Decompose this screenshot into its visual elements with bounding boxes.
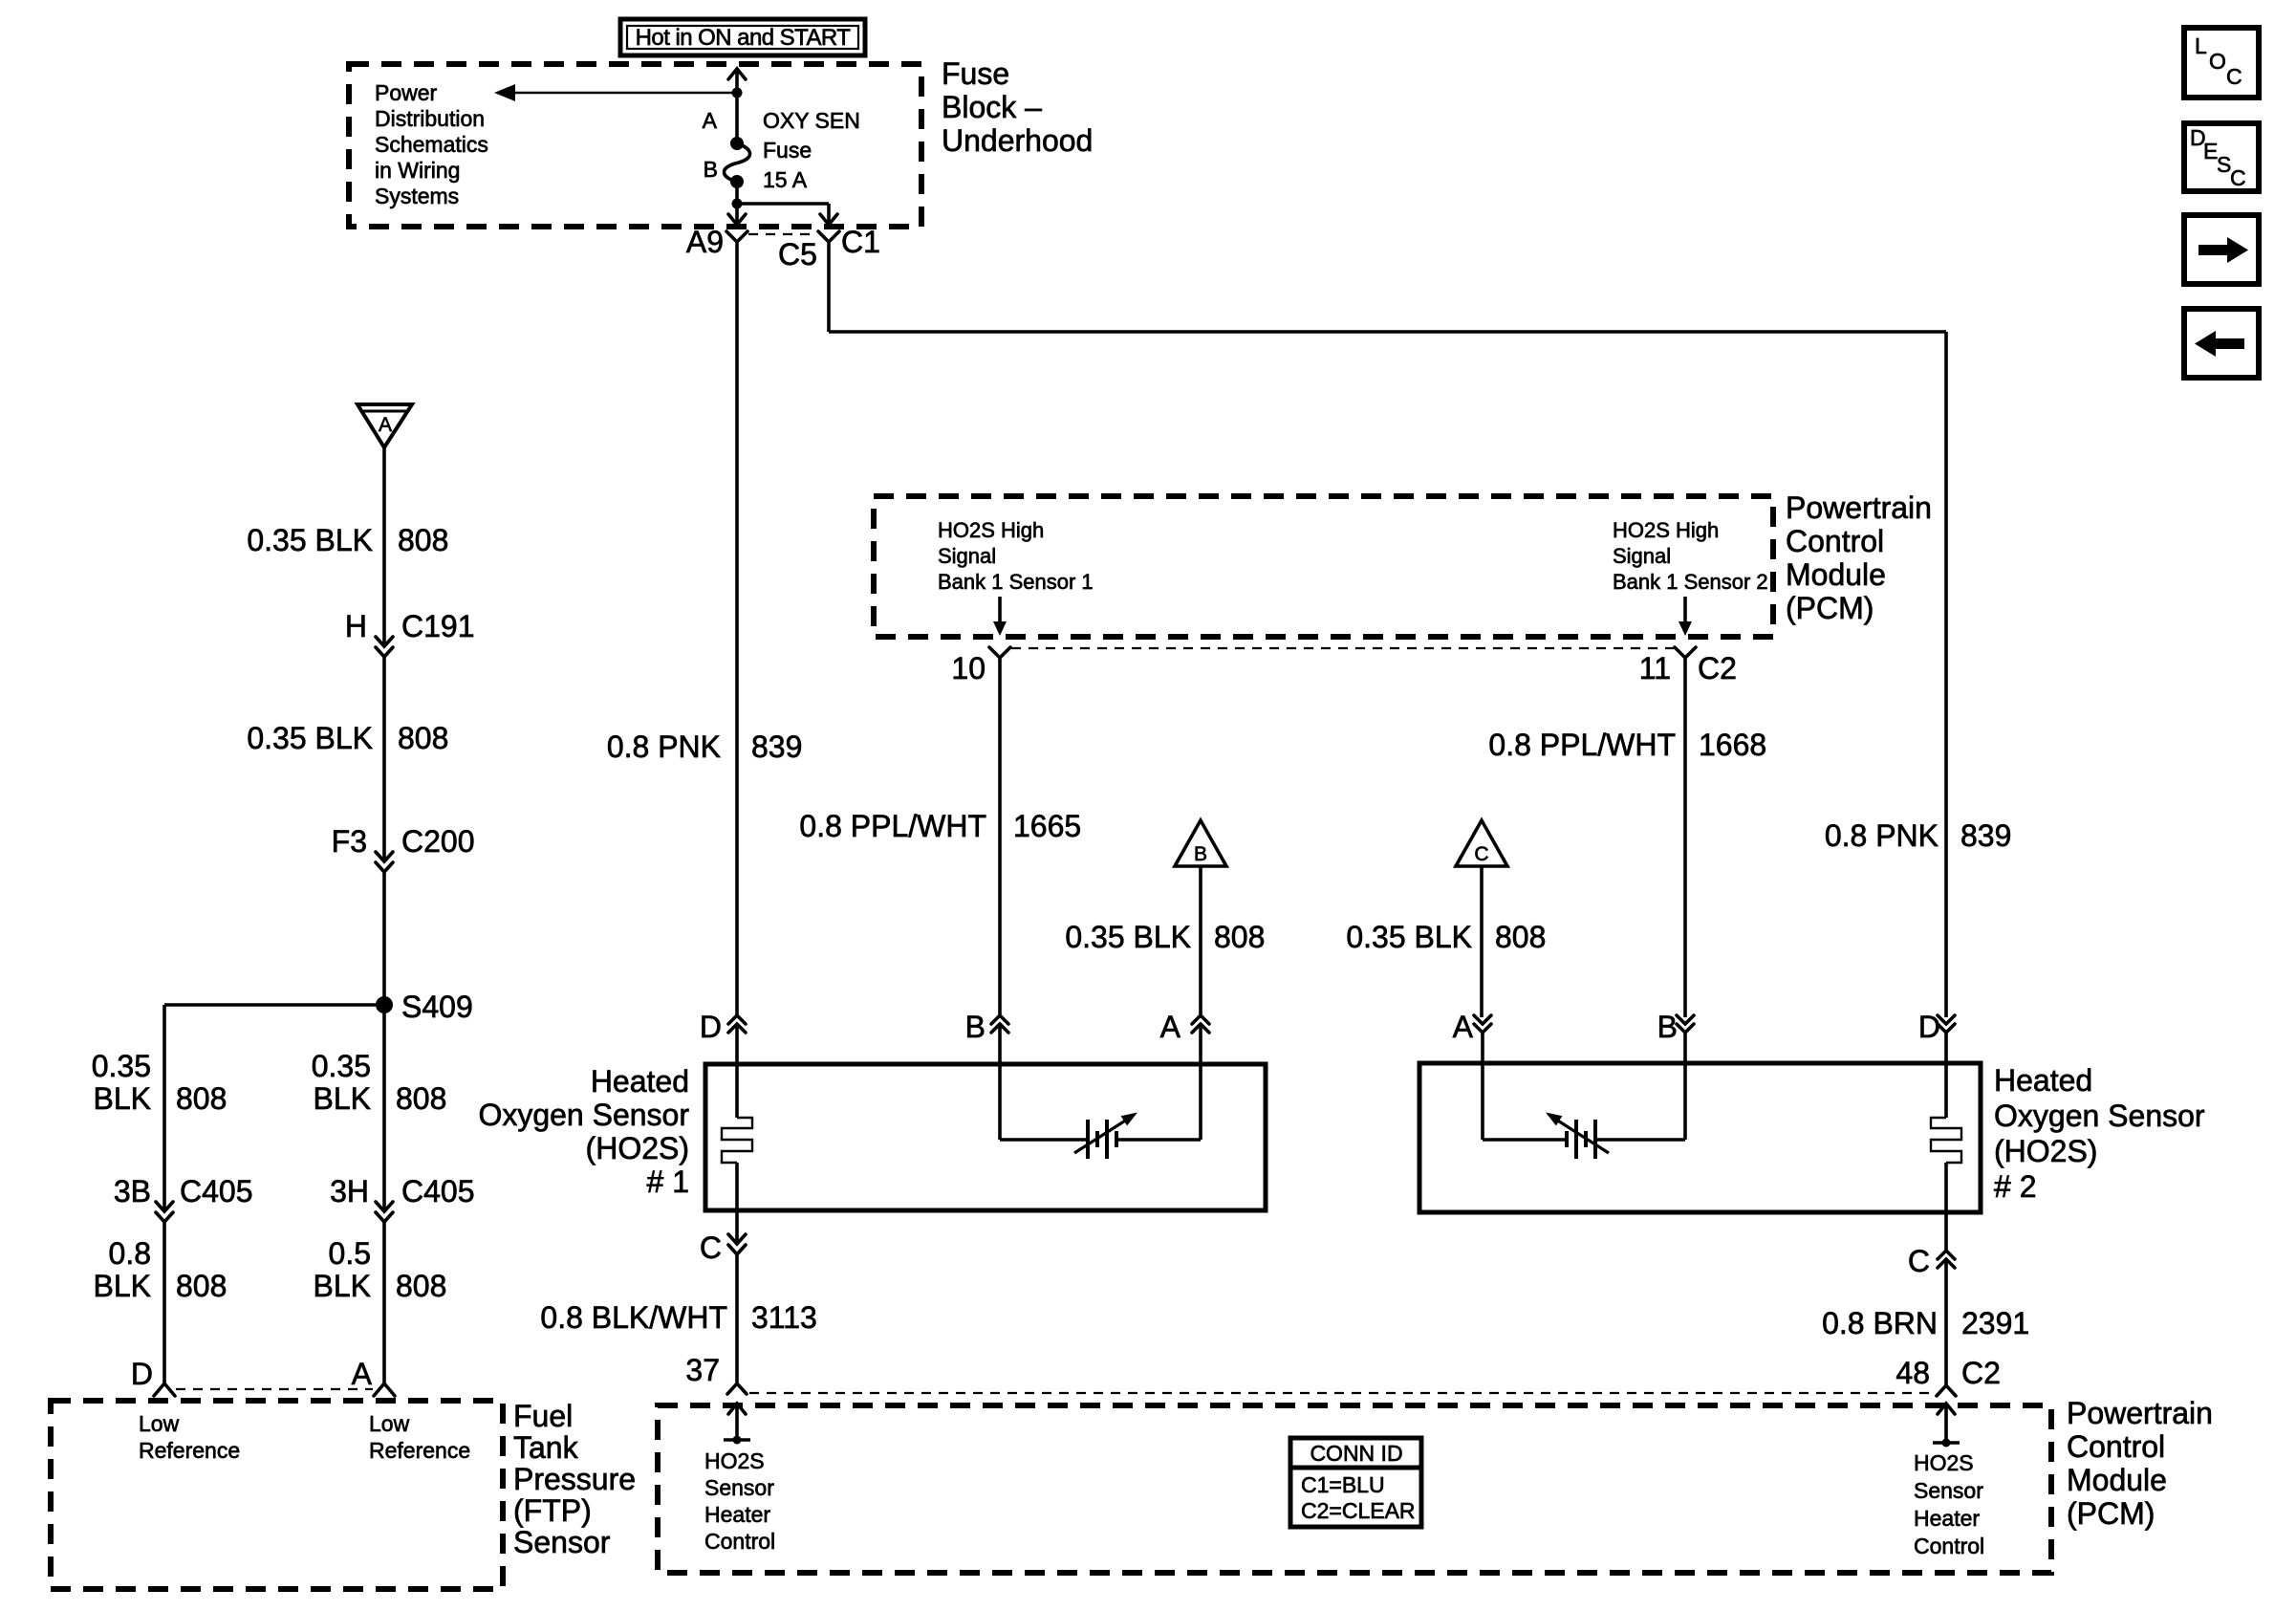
svg-text:Module: Module	[2067, 1463, 2167, 1497]
svg-text:0.35 BLK: 0.35 BLK	[1346, 920, 1472, 954]
Heated Oxygen Sensor #1 box	[705, 1064, 1266, 1210]
thin dashed connector line FTP	[176, 1388, 373, 1390]
heater element HO2S1	[722, 1118, 752, 1163]
wire: S409 branch left	[164, 1005, 384, 1383]
svg-text:11: 11	[1639, 651, 1671, 686]
svg-text:37: 37	[685, 1353, 720, 1387]
wire: triangle A down (0.35 BLK 808)	[382, 447, 386, 645]
svg-text:808: 808	[176, 1081, 227, 1116]
Heated Oxygen Sensor #2 box	[1419, 1063, 1981, 1212]
LOC button	[2184, 28, 2259, 98]
label 0.35 BLK 808 (left branch)	[92, 1049, 227, 1116]
fuse value label	[763, 108, 860, 192]
svg-text:839: 839	[751, 729, 802, 764]
Heated Oxygen Sensor (HO2S) #2 label	[1994, 1063, 2205, 1204]
svg-text:48: 48	[1895, 1356, 1930, 1390]
wire: C191 to C200 (0.35 BLK 808)	[382, 657, 386, 860]
svg-text:# 1: # 1	[647, 1165, 689, 1199]
svg-text:808: 808	[1214, 920, 1265, 954]
wire: A9 down to HO2S1 heater (0.8 PNK 839)	[735, 242, 739, 1014]
arrow leaving fuse block at C1	[820, 214, 837, 225]
label 0.8 PPL/WHT 1665	[799, 809, 1081, 843]
svg-text:(HO2S): (HO2S)	[1994, 1134, 2097, 1168]
label 0.35 BLK 808 (C)	[1346, 920, 1546, 954]
Powertrain Control Module (PCM) label top	[1786, 490, 1932, 625]
pin label HO2S High Signal Bank 1 Sensor 2	[1613, 518, 1768, 594]
svg-text:A: A	[1160, 1010, 1181, 1044]
Fuel Tank Pressure sensor dashed box	[51, 1401, 503, 1589]
wire: C1 right and down to HO2S2 heater	[829, 242, 1946, 1017]
label 0.5 BLK 808	[314, 1236, 447, 1303]
svg-text:Systems: Systems	[375, 184, 459, 208]
svg-text:# 2: # 2	[1994, 1169, 2036, 1204]
svg-text:Distribution: Distribution	[375, 106, 485, 131]
svg-text:L: L	[2195, 33, 2207, 58]
HO2S Sensor Heater Control label right	[1914, 1450, 1984, 1558]
svg-text:BLK: BLK	[94, 1081, 151, 1116]
connector A9 (fork)	[686, 225, 747, 259]
svg-text:0.35 BLK: 0.35 BLK	[247, 721, 373, 755]
label 0.8 BRN 2391	[1822, 1306, 2029, 1340]
heater element HO2S2	[1931, 1118, 1961, 1163]
svg-text:Control: Control	[1914, 1534, 1984, 1558]
svg-text:C: C	[2226, 64, 2242, 89]
thin dashed connector line above PCM2	[749, 1392, 1934, 1394]
svg-text:10: 10	[951, 651, 986, 686]
PCM lower dashed box	[658, 1405, 2051, 1573]
wire: HO2S2 C down to pin 48 (0.8 BRN 2391)	[1944, 1259, 1948, 1386]
svg-text:Heated: Heated	[1994, 1063, 2092, 1098]
fuse OXY SEN 15A terminal A	[730, 137, 744, 150]
svg-text:839: 839	[1960, 818, 2011, 853]
svg-text:Pressure: Pressure	[513, 1462, 636, 1496]
connector D into FTP (fork)	[131, 1357, 175, 1396]
svg-text:F3: F3	[332, 824, 367, 859]
wire: heater to C pin HO2S2	[1944, 1163, 1948, 1251]
svg-text:15 A: 15 A	[763, 167, 808, 192]
connector pin 10 (fork)	[951, 647, 1010, 686]
connector chevrons B into HO2S1	[965, 1010, 1008, 1044]
svg-text:Heater: Heater	[1914, 1506, 1980, 1531]
svg-text:Fuse: Fuse	[763, 138, 812, 163]
Fuse Block - Underhood label	[942, 56, 1093, 158]
svg-text:Module: Module	[1786, 557, 1886, 592]
svg-text:Oxygen Sensor: Oxygen Sensor	[478, 1098, 689, 1132]
wires from chevrons into HO2S1	[737, 1024, 1201, 1140]
svg-text:Block –: Block –	[942, 90, 1042, 124]
svg-text:Bank 1 Sensor 2: Bank 1 Sensor 2	[1613, 570, 1768, 594]
node S409	[376, 990, 473, 1024]
svg-text:C405: C405	[180, 1174, 253, 1208]
fuse OXY SEN 15A terminal B	[730, 175, 744, 188]
svg-text:C: C	[700, 1230, 722, 1265]
arrow to power distribution schematics	[494, 84, 737, 101]
wire: pin11 down to HO2S2 B (0.8 PPL/WHT 1668)	[1683, 658, 1687, 1017]
node: junction dot at power distribution tap	[732, 88, 743, 98]
wires from chevrons into HO2S2	[1483, 1033, 1946, 1140]
svg-text:C191: C191	[401, 609, 475, 643]
svg-text:C2: C2	[1961, 1356, 2001, 1390]
svg-text:Sensor: Sensor	[513, 1525, 611, 1559]
label 0.35 BLK 808 (middle)	[247, 721, 448, 755]
svg-text:C1=BLU: C1=BLU	[1301, 1472, 1385, 1497]
svg-text:HO2S High: HO2S High	[1613, 518, 1719, 542]
connector chevrons D into HO2S2	[1918, 1010, 1955, 1044]
svg-text:Hot in ON and START: Hot in ON and START	[636, 25, 852, 51]
svg-text:D: D	[700, 1010, 722, 1044]
connector chevron C below HO2S2	[1908, 1244, 1955, 1278]
svg-text:0.35: 0.35	[312, 1049, 371, 1083]
connector 3H C405	[330, 1174, 474, 1222]
sensor cell HO2S1	[1000, 1113, 1201, 1160]
svg-text:A9: A9	[686, 225, 724, 259]
svg-text:808: 808	[176, 1269, 227, 1303]
svg-text:0.8 BLK/WHT: 0.8 BLK/WHT	[540, 1300, 727, 1335]
wire: pin10 down to HO2S1 B (0.8 PPL/WHT 1665)	[998, 658, 1002, 1014]
label 0.35 BLK 808 (upper)	[247, 523, 448, 557]
svg-text:Sensor: Sensor	[1914, 1478, 1983, 1503]
svg-text:HO2S: HO2S	[704, 1448, 765, 1473]
svg-text:C5: C5	[778, 237, 817, 272]
pin label HO2S High Signal Bank 1 Sensor 1	[938, 518, 1094, 594]
svg-text:0.8 PPL/WHT: 0.8 PPL/WHT	[1488, 728, 1676, 762]
svg-text:0.35: 0.35	[92, 1049, 151, 1083]
svg-text:Reference: Reference	[369, 1438, 470, 1463]
svg-text:808: 808	[398, 523, 448, 557]
svg-text:Heater: Heater	[704, 1502, 770, 1527]
svg-text:H: H	[345, 609, 367, 643]
svg-text:C405: C405	[401, 1174, 475, 1208]
svg-text:D: D	[1918, 1010, 1940, 1044]
wire: HO2S1 C down to pin 37 (0.8 BLK/WHT 3113)	[735, 1254, 739, 1383]
svg-text:Control: Control	[1786, 524, 1884, 558]
svg-text:2391: 2391	[1961, 1306, 2029, 1340]
HO2S Sensor Heater Control label left	[704, 1448, 775, 1554]
wire: feed from Hot in ON into fuse block	[728, 69, 746, 143]
Power Distribution Schematics note	[375, 80, 488, 208]
connector pin 48 C2 (fork)	[1895, 1356, 2001, 1396]
svg-text:Schematics: Schematics	[375, 132, 488, 157]
connector A into FTP (fork)	[352, 1357, 395, 1396]
svg-text:C: C	[2230, 165, 2246, 190]
svg-text:C2=CLEAR: C2=CLEAR	[1301, 1498, 1416, 1523]
svg-text:1668: 1668	[1699, 728, 1766, 762]
svg-text:0.35 BLK: 0.35 BLK	[1065, 920, 1191, 954]
next page arrow button	[2184, 215, 2259, 284]
svg-text:B: B	[965, 1010, 986, 1044]
svg-text:Control: Control	[2067, 1429, 2165, 1464]
connector F3 C200	[332, 824, 475, 872]
svg-text:Power: Power	[375, 80, 438, 105]
svg-text:Signal: Signal	[938, 544, 996, 568]
svg-text:D: D	[131, 1357, 153, 1391]
svg-text:3113: 3113	[751, 1300, 817, 1335]
svg-text:1665: 1665	[1013, 809, 1081, 843]
wire below triangle B (0.35 BLK 808)	[1199, 866, 1202, 1014]
svg-text:HO2S: HO2S	[1914, 1450, 1974, 1475]
wire: C200 down to S409	[382, 872, 386, 1210]
svg-text:Control: Control	[704, 1529, 775, 1554]
svg-text:B: B	[704, 157, 718, 182]
svg-text:in Wiring: in Wiring	[375, 158, 460, 183]
connector H C191	[345, 609, 475, 657]
Fuel Tank Pressure (FTP) Sensor label	[513, 1399, 636, 1559]
svg-text:808: 808	[398, 721, 448, 755]
arrow from Bank 1 Sensor 1	[993, 597, 1007, 636]
connector 3B C405	[114, 1174, 253, 1222]
node: fuse output junction	[732, 199, 743, 209]
PCM upper dashed box	[874, 496, 1773, 637]
wire: branch to C1	[737, 204, 829, 222]
svg-text:C1: C1	[841, 225, 880, 259]
svg-text:Oxygen Sensor: Oxygen Sensor	[1994, 1099, 2205, 1133]
label 0.8 BLK 808	[94, 1236, 227, 1303]
connector chevron C below HO2S1	[700, 1230, 746, 1265]
svg-text:Signal: Signal	[1613, 544, 1671, 568]
arrow leaving fuse block at A9	[728, 214, 746, 225]
svg-text:BLK: BLK	[314, 1269, 371, 1303]
Fuse Block - Underhood dashed box	[349, 64, 921, 227]
svg-text:Underhood: Underhood	[942, 123, 1093, 158]
svg-text:0.8: 0.8	[109, 1236, 151, 1271]
svg-text:BLK: BLK	[314, 1081, 371, 1116]
svg-text:B: B	[1657, 1010, 1678, 1044]
svg-text:(PCM): (PCM)	[1786, 591, 1874, 625]
svg-text:808: 808	[396, 1269, 446, 1303]
DESC button	[2184, 123, 2259, 191]
connector pin 37 (fork)	[685, 1353, 747, 1394]
grounding triangle B	[1175, 820, 1226, 866]
previous page arrow button	[2184, 309, 2259, 378]
Low Reference label 2	[369, 1411, 470, 1463]
Low Reference label 1	[139, 1411, 240, 1463]
svg-text:0.35 BLK: 0.35 BLK	[247, 523, 373, 557]
connector chevrons A into HO2S1	[1160, 1010, 1209, 1044]
svg-text:Reference: Reference	[139, 1438, 240, 1463]
svg-text:C: C	[1908, 1244, 1930, 1278]
wire: heater to C pin HO2S1	[735, 1163, 739, 1243]
CONN ID table	[1290, 1438, 1421, 1527]
svg-text:A: A	[352, 1357, 373, 1391]
svg-text:3H: 3H	[330, 1174, 369, 1208]
svg-text:C2: C2	[1698, 651, 1737, 686]
connector chevrons A into HO2S2	[1453, 1010, 1491, 1044]
wire below triangle C (0.35 BLK 808)	[1480, 866, 1484, 1017]
svg-text:(FTP): (FTP)	[513, 1493, 592, 1528]
svg-text:A: A	[1453, 1010, 1474, 1044]
svg-text:Powertrain: Powertrain	[2067, 1396, 2213, 1430]
svg-text:Powertrain: Powertrain	[1786, 490, 1932, 525]
wire: fuse output	[735, 182, 739, 222]
svg-text:OXY SEN: OXY SEN	[763, 108, 860, 133]
svg-text:Sensor: Sensor	[704, 1475, 774, 1500]
svg-text:Low: Low	[369, 1411, 410, 1436]
svg-text:CONN ID: CONN ID	[1310, 1441, 1402, 1466]
svg-text:BLK: BLK	[94, 1269, 151, 1303]
label 0.8 PNK 839	[607, 729, 803, 764]
connector chevrons D into HO2S1	[700, 1010, 746, 1044]
HO2S Sensor Heater Control pin 37 arrow	[724, 1404, 750, 1445]
svg-text:C200: C200	[401, 824, 475, 859]
svg-text:Bank 1 Sensor 1: Bank 1 Sensor 1	[938, 570, 1094, 594]
svg-text:C: C	[1474, 843, 1488, 865]
svg-text:808: 808	[1495, 920, 1546, 954]
connector C5 dashed link	[748, 234, 817, 272]
svg-text:0.8 PNK: 0.8 PNK	[607, 729, 721, 764]
svg-text:808: 808	[396, 1081, 446, 1116]
svg-text:3B: 3B	[114, 1174, 151, 1208]
svg-text:Heated: Heated	[591, 1064, 689, 1099]
thin dashed connector line under PCM	[1011, 647, 1674, 649]
svg-text:0.8 PPL/WHT: 0.8 PPL/WHT	[799, 809, 986, 843]
connector chevrons B into HO2S2	[1657, 1010, 1694, 1044]
svg-text:O: O	[2209, 49, 2226, 74]
arrow from Bank 1 Sensor 2	[1679, 597, 1692, 636]
sensor cell HO2S2	[1483, 1113, 1685, 1160]
label 0.35 BLK 808 (B)	[1065, 920, 1265, 954]
svg-text:Low: Low	[139, 1411, 180, 1436]
Hot in ON and START header box	[620, 19, 865, 55]
svg-text:B: B	[1194, 843, 1207, 865]
Powertrain Control Module (PCM) label bottom	[2067, 1396, 2213, 1531]
svg-text:Tank: Tank	[513, 1430, 579, 1465]
svg-text:HO2S High: HO2S High	[938, 518, 1044, 542]
label 0.35 BLK 808 (right branch)	[312, 1049, 447, 1116]
connector pin 11 C2 (fork)	[1639, 647, 1737, 686]
grounding triangle C	[1456, 820, 1507, 866]
svg-text:S409: S409	[401, 990, 473, 1024]
label 0.8 PPL/WHT 1668	[1488, 728, 1766, 762]
svg-text:(HO2S): (HO2S)	[586, 1131, 689, 1165]
HO2S Sensor Heater Control pin 48 arrow	[1933, 1404, 1960, 1448]
connector C1 (fork)	[818, 225, 880, 259]
fuse OXY SEN 15A element	[725, 143, 750, 182]
svg-text:Fuse: Fuse	[942, 56, 1009, 91]
label 0.8 PNK 839 right	[1825, 818, 2012, 853]
svg-text:A: A	[379, 414, 392, 436]
svg-text:Fuel: Fuel	[513, 1399, 573, 1433]
svg-text:A: A	[703, 108, 718, 133]
Heated Oxygen Sensor (HO2S) #1 label	[478, 1064, 689, 1199]
svg-text:0.8 BRN: 0.8 BRN	[1822, 1306, 1938, 1340]
label 0.8 BLK/WHT 3113	[540, 1300, 816, 1335]
grounding triangle A	[357, 404, 412, 447]
svg-text:0.5: 0.5	[329, 1236, 371, 1271]
svg-text:(PCM): (PCM)	[2067, 1496, 2155, 1531]
svg-text:0.8 PNK: 0.8 PNK	[1825, 818, 1939, 853]
